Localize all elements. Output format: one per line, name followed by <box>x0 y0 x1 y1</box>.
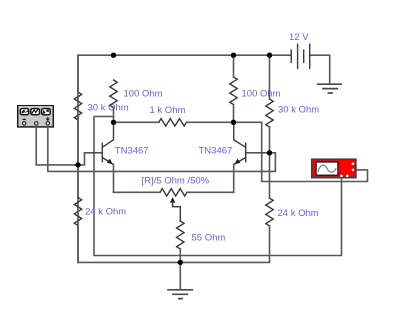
wire left base node down to 24k <box>77 120 79 198</box>
resistor R2 100 Ohm (left collector load) <box>110 80 117 108</box>
function generator XFG1 <box>18 106 54 127</box>
svg-text:100 Ohm: 100 Ohm <box>124 89 163 100</box>
junction node on rail at right 100 Ohm <box>231 53 236 58</box>
junction node on rail at right 30k / battery <box>267 53 272 58</box>
junction node ground bus / 55 Ohm <box>178 260 183 265</box>
svg-text:100 Ohm: 100 Ohm <box>242 89 281 100</box>
wire scope channel B tap (left collector to scope bottom) <box>94 117 342 256</box>
svg-text:1 k Ohm: 1 k Ohm <box>150 105 186 116</box>
wire right collector tap to scope right terminal <box>234 122 368 181</box>
svg-text:30 k Ohm: 30 k Ohm <box>88 103 129 114</box>
svg-text:[R]/5 Ohm /50%: [R]/5 Ohm /50% <box>142 176 210 187</box>
wire 55 Ohm to ground bus <box>179 249 181 262</box>
ground (battery) <box>317 84 342 93</box>
junction node left collector <box>111 120 116 125</box>
oscilloscope XSC1 <box>312 159 356 177</box>
wire right base node down to 24k <box>269 153 271 198</box>
junction node right collector <box>231 120 236 125</box>
svg-text:55 Ohm: 55 Ohm <box>192 233 226 244</box>
wire left 24k to ground bus <box>78 226 180 263</box>
ground (center) <box>167 290 193 299</box>
transistor Q2 TN3467 (right, NPN mirrored) <box>234 122 270 164</box>
resistor R3 100 Ohm (right collector load) <box>230 77 237 105</box>
wire left base step from node <box>78 153 85 165</box>
wire battery positive to ground <box>310 55 330 84</box>
svg-text:24 k Ohm: 24 k Ohm <box>278 208 319 219</box>
potentiometer R8 [R]/5 Ohm /50% <box>114 191 161 193</box>
wire FG plus output to right base node <box>48 127 276 171</box>
resistor R6 24 k Ohm (left) <box>74 198 81 226</box>
wire right 30k leads <box>269 55 271 99</box>
resistor R1 30 k Ohm (left bias) <box>74 92 81 120</box>
wire right emitter down to potentiometer <box>233 165 235 193</box>
resistor R9 55 Ohm <box>177 221 184 249</box>
svg-text:TN3467: TN3467 <box>115 146 149 157</box>
junction node left base <box>75 162 80 167</box>
battery V1 12V <box>291 44 310 68</box>
wire left emitter down to potentiometer <box>113 165 115 193</box>
resistor R7 24 k Ohm (right) <box>266 198 273 226</box>
wire top supply rail <box>78 55 291 262</box>
wire ground stem (center) <box>179 262 181 289</box>
wire left 30k lead down to base node <box>77 55 79 92</box>
svg-text:TN3467: TN3467 <box>199 146 233 157</box>
svg-text:12 V: 12 V <box>289 32 309 43</box>
resistor R5 1 k Ohm (between collectors) <box>114 121 159 123</box>
junction node on rail at left 100 Ohm <box>111 53 116 58</box>
potentiometer wiper arrow <box>170 197 175 202</box>
wire right 100 Ohm leads <box>233 55 235 77</box>
wire left 100 Ohm lead down to collector node <box>113 108 115 123</box>
svg-text:24 k Ohm: 24 k Ohm <box>85 207 126 218</box>
wire right 24k to ground bus <box>180 226 269 262</box>
resistor R4 30 k Ohm (right bias) <box>266 99 273 127</box>
wire FG minus output to left base node <box>36 127 78 165</box>
transistor Q1 TN3467 (left, NPN) <box>85 122 114 164</box>
svg-text:30 k Ohm: 30 k Ohm <box>278 105 319 116</box>
junction node right base <box>267 150 272 155</box>
